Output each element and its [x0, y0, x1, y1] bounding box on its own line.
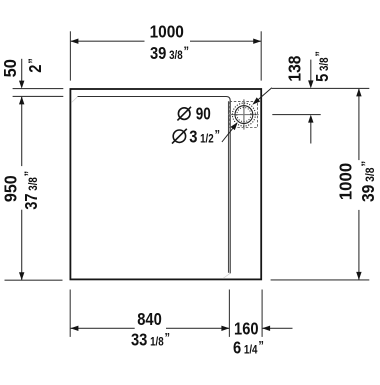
drain inner dotted circle — [237, 108, 251, 122]
label 3 1/2 value — [189, 127, 220, 147]
dimension line 138 upper — [310, 60, 312, 81]
dimension line 950 — [21, 96, 23, 166]
left extension line bottom — [5, 279, 63, 281]
bottom extension line right edge — [261, 290, 263, 337]
svg-text:950: 950 — [1, 175, 21, 202]
right extension line bottom edge — [271, 279, 370, 281]
label 950 left — [1, 175, 21, 202]
top left extension line — [69, 31, 71, 80]
left extension line outer edge — [13, 88, 64, 90]
drain cover dashed square — [230, 102, 258, 128]
drain crosshair horizontal — [228, 114, 258, 116]
svg-text:840: 840 — [137, 310, 162, 329]
faint fold line bottom — [223, 274, 230, 279]
corner drain section line — [228, 101, 230, 273]
left extension line inner rim — [13, 95, 64, 97]
label 5 3/8 right — [313, 51, 333, 82]
drain outer dotted circle — [232, 103, 255, 126]
dimension line 138 lower arrow — [310, 122, 312, 143]
dimension line 50 — [21, 59, 23, 81]
dimension line 160 outside arrow — [262, 327, 292, 329]
right extension line top edge — [272, 87, 370, 89]
bottom extension line left edge — [69, 290, 71, 337]
bottom extension line drain section — [228, 290, 230, 337]
label 39 3/8 right — [359, 161, 378, 202]
dimension line 840 — [70, 327, 134, 329]
svg-text:160: 160 — [234, 319, 259, 338]
svg-text:50: 50 — [1, 59, 20, 77]
svg-text:90: 90 — [196, 105, 211, 124]
svg-text:138: 138 — [286, 56, 305, 82]
label 1000 top — [150, 23, 184, 42]
label 840 bottom — [137, 310, 162, 329]
dimension line right 1000 — [358, 88, 360, 160]
drain hole circle O90 solid — [235, 106, 253, 124]
label 2 inch left — [26, 58, 46, 73]
label 33 1/8 bottom — [131, 330, 170, 350]
shower tray outer outline — [70, 89, 261, 279]
label 90 value — [196, 105, 211, 124]
label 50 left — [1, 59, 20, 77]
leader to drain from top right — [254, 88, 272, 104]
label 37 3/8 left — [22, 171, 42, 210]
svg-text:1000: 1000 — [150, 23, 184, 42]
label 6 1/4 bottom — [233, 338, 264, 358]
faint fold line top-left — [72, 97, 78, 103]
svg-text:1000: 1000 — [336, 163, 355, 200]
label 39 3/8 top — [150, 44, 189, 64]
top right extension line — [260, 31, 262, 80]
drain crosshair vertical — [243, 99, 245, 129]
label 1000 right — [336, 163, 355, 200]
inner rim line with corner radius — [78, 97, 231, 274]
diameter symbol for O90 — [177, 107, 191, 121]
leader from O 3 1/2 label — [222, 124, 236, 142]
label 160 bottom — [234, 319, 259, 338]
drain centre extension line — [272, 114, 320, 116]
label 138 right — [286, 56, 305, 82]
top dimension line 1000 — [70, 40, 144, 42]
diameter symbol for O 3 1/2 — [172, 129, 187, 144]
